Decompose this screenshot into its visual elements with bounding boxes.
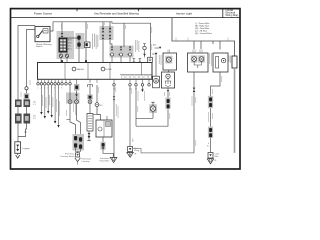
buzzer box B2 bbox=[96, 120, 112, 137]
box1a top hatch bbox=[168, 50, 170, 54]
G4 box bbox=[128, 147, 133, 152]
noise filter box bbox=[85, 42, 91, 48]
box3: door switch bbox=[213, 53, 228, 72]
block fuse circle 2 bbox=[101, 67, 105, 71]
box2 entry hatches bbox=[193, 49, 202, 53]
column x=114 wire bbox=[113, 96, 115, 100]
wire label hatches right of col 86 bbox=[93, 34, 98, 50]
ground V cluster bbox=[75, 158, 81, 162]
legend text block bbox=[195, 22, 212, 35]
box1a left pin hatches bbox=[159, 55, 161, 65]
comb box to B2 link bbox=[93, 114, 97, 116]
svg-text:Wire: Wire bbox=[215, 155, 219, 158]
beads col 168 bbox=[165, 98, 170, 110]
wire from pin 136 bbox=[135, 86, 137, 126]
svg-text:Luggage: Luggage bbox=[22, 148, 31, 150]
svg-text:Switch: Switch bbox=[36, 45, 43, 48]
box2 exit wire to bottom run bbox=[193, 72, 195, 153]
connector beads on col 79 bbox=[77, 36, 80, 40]
connector pair row 1 bbox=[15, 100, 22, 108]
ground under left box bbox=[17, 153, 19, 155]
block entry mark 1 bbox=[61, 60, 63, 63]
grey shield wire bbox=[234, 68, 236, 153]
block internal partitions bbox=[64, 63, 66, 80]
shield horizontal run bbox=[133, 148, 194, 153]
pins + narrow box far right bbox=[229, 56, 231, 64]
connector at ignition switch top bbox=[61, 33, 63, 37]
block entry mark 2 bbox=[85, 60, 87, 63]
bead under B2 bbox=[102, 137, 104, 142]
diode column x=156 bbox=[152, 53, 155, 55]
feeds from top bus bbox=[102, 22, 104, 28]
connector diamonds rect A row1 bbox=[102, 28, 105, 32]
ignition switch shaded area bbox=[57, 31, 75, 59]
small diode + stub left of box1 bbox=[155, 47, 160, 49]
small circle connector above row1 bbox=[25, 87, 28, 90]
svg-text:Panel Wire: Panel Wire bbox=[100, 161, 111, 163]
wire box1b down + diamond bbox=[167, 88, 169, 98]
stub box1a to box1b bbox=[168, 70, 170, 72]
grey sq + circle-X connector col 90 bbox=[87, 95, 92, 100]
grey square connector on left wire2 bbox=[24, 93, 29, 99]
wires rect B to junction block bbox=[111, 56, 113, 63]
wires ignition to junction block bbox=[60, 52, 62, 54]
svg-text:1: 1 bbox=[37, 88, 38, 90]
key box label bbox=[36, 43, 52, 48]
svg-text:Wiring Diag.: Wiring Diag. bbox=[226, 14, 239, 17]
wires left pairs down bbox=[17, 107, 19, 114]
svg-text:B 6: B 6 bbox=[100, 105, 103, 107]
circle-X connector col 70 bbox=[68, 100, 72, 104]
svg-text:(R) : Ground Point: (R) : Ground Point bbox=[195, 32, 212, 35]
feed from top bus at x=124 bbox=[123, 23, 125, 47]
row2 labels bbox=[33, 116, 37, 121]
connector diamonds rect A row2 bbox=[102, 35, 105, 39]
block sub row right bbox=[120, 74, 152, 76]
ignition switch contact box bbox=[59, 38, 67, 52]
block pin stubs and circles bottom left group bbox=[38, 79, 70, 82]
svg-text:Courtesy: Courtesy bbox=[82, 160, 90, 163]
box3 side text bbox=[210, 53, 212, 66]
scattered wire color-code label marks bbox=[21, 23, 228, 147]
block fuse circle 1 bbox=[72, 67, 76, 71]
wire ignition switch to column 79 bbox=[67, 38, 79, 63]
wire tap to ignition switch bbox=[61, 22, 63, 33]
svg-text:AM2: AM2 bbox=[68, 42, 72, 45]
block pin circles right group bbox=[90, 79, 149, 83]
key/unlock warning switch box bbox=[35, 26, 50, 41]
svg-text:Interior Light: Interior Light bbox=[176, 11, 192, 15]
rect B bottom circle symbols bbox=[111, 53, 132, 56]
bus junction ticks bbox=[194, 41, 220, 50]
box1a: spot light bbox=[163, 53, 177, 70]
ignition switch bottom connectors bbox=[59, 54, 62, 57]
hatches right of 114 wire bbox=[116, 104, 118, 118]
connector diamond on 194 wire bbox=[193, 88, 196, 92]
svg-text:A21: A21 bbox=[153, 44, 156, 47]
arrowhead terminals bbox=[40, 112, 42, 115]
row1 labels bbox=[33, 102, 37, 107]
wire from key box to top bus bbox=[50, 22, 151, 58]
page border frame bbox=[11, 9, 241, 169]
lighter socket box bbox=[153, 76, 160, 88]
circle-X connector col 76.5 bbox=[75, 100, 79, 104]
svg-text:AM1: AM1 bbox=[68, 39, 72, 42]
svg-text:IG1: IG1 bbox=[68, 46, 71, 48]
box1b: key reminder buzzer bbox=[162, 72, 175, 88]
G6 box bbox=[208, 153, 213, 159]
wire W2 left branch bbox=[27, 30, 36, 94]
small circle inside block right portion bbox=[144, 66, 147, 69]
svg-text:8: 8 bbox=[61, 88, 62, 90]
wire W1 left branch bbox=[18, 26, 35, 100]
small diamond connector on left col bbox=[24, 132, 26, 134]
svg-text:GAUGE: GAUGE bbox=[77, 68, 85, 71]
box3 exit wire bbox=[211, 72, 221, 96]
svg-text:DOME: DOME bbox=[106, 69, 113, 71]
connector + cap end col 90 bbox=[88, 131, 90, 133]
wire hatches near loop verticals bbox=[138, 91, 208, 122]
block entry marks right end bbox=[133, 59, 136, 63]
wire name hatches left forest bbox=[43, 95, 76, 116]
rect B top connector diamonds bbox=[111, 47, 113, 51]
ground G3 triangle bbox=[110, 157, 117, 162]
G4 triangle bbox=[127, 152, 133, 157]
wires below rect A bbox=[102, 40, 104, 63]
pin number text under circles bbox=[37, 88, 143, 91]
dome light bulb bbox=[149, 104, 157, 113]
wire from pin 142.5 loop bbox=[136, 109, 168, 126]
svg-text:Courtesy Switch: Courtesy Switch bbox=[60, 155, 74, 158]
G6 triangle bbox=[207, 159, 213, 164]
interior light box (left bottom) bbox=[15, 142, 21, 154]
header right cell: Overall Electrical Wiring Diagram bbox=[226, 9, 239, 17]
beads col 210 upper bbox=[208, 96, 213, 108]
connector circle bbox=[95, 103, 99, 107]
beads col 210 lower bbox=[208, 127, 213, 138]
ignition switch pin labels bbox=[68, 39, 72, 51]
connector pair row 2 bbox=[15, 114, 22, 124]
entry connector box on block top right bbox=[148, 57, 153, 62]
svg-text:Power Source: Power Source bbox=[34, 11, 53, 15]
box2: spot lights bbox=[188, 53, 209, 72]
comb junction box col 90 bbox=[89, 104, 91, 114]
svg-text:Key Reminder and Seat Belt War: Key Reminder and Seat Belt Warning bbox=[94, 11, 139, 15]
wire to ground G3 bbox=[103, 150, 113, 158]
